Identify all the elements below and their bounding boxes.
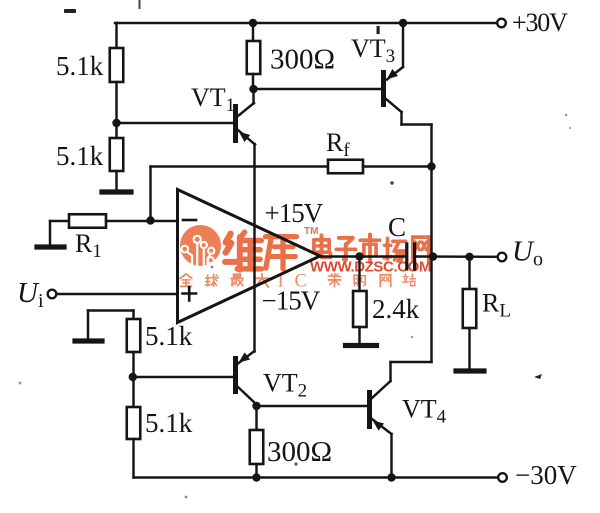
svg-text:+15V: +15V: [265, 198, 324, 228]
svg-text:−15V: −15V: [262, 286, 321, 316]
svg-text:WWW.DZSC.COM: WWW.DZSC.COM: [310, 259, 431, 276]
svg-text:300Ω: 300Ω: [270, 44, 335, 76]
svg-text:C: C: [388, 212, 406, 242]
svg-text:5.1k: 5.1k: [145, 321, 193, 351]
svg-text:300Ω: 300Ω: [267, 436, 332, 468]
svg-text:5.1k: 5.1k: [56, 51, 104, 81]
svg-text:−30V: −30V: [515, 460, 577, 490]
svg-text:+30V: +30V: [512, 8, 568, 37]
svg-text:5.1k: 5.1k: [145, 408, 193, 438]
svg-text:2.4k: 2.4k: [372, 294, 420, 324]
svg-text:5.1k: 5.1k: [56, 141, 104, 171]
